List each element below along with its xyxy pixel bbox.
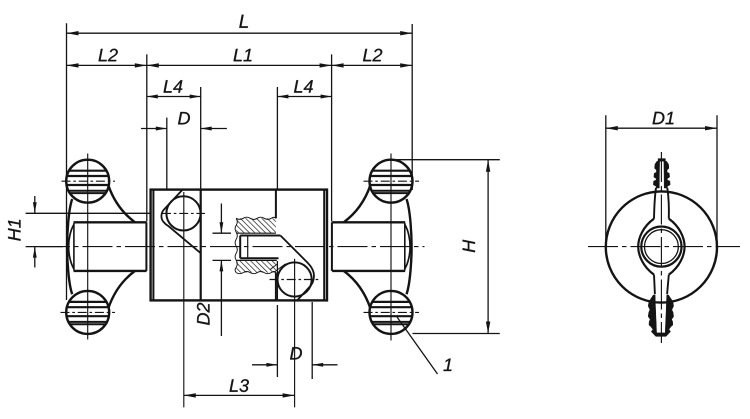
dimension D1 ext right — [716, 115, 718, 246]
side view top blade right lower edge — [667, 188, 669, 219]
left top ball horizontal centerline — [62, 180, 116, 182]
dimension D2 arrows — [220, 222, 224, 233]
label L4 right — [294, 80, 313, 92]
label H — [463, 240, 475, 252]
thread top section wavy top edge — [236, 217, 276, 219]
dimension H upper extension line — [393, 159, 500, 161]
dimension D top tail left — [141, 128, 167, 130]
right hub end face line — [404, 223, 406, 270]
dimension D2 line upper segment — [220, 204, 222, 234]
dimension D bottom tail right — [312, 364, 337, 366]
dimension L arrow left — [67, 31, 79, 35]
dimension L2 left arrows — [67, 63, 79, 67]
dimension L4 left arrows — [147, 95, 158, 99]
side view bottom blade tip wedge — [651, 330, 670, 337]
thread bore left end — [239, 236, 241, 259]
right bottom ball flats — [373, 301, 410, 303]
thread major line bottom — [236, 259, 277, 261]
block internal edge x=275.9 upper — [275, 190, 277, 219]
dimension L4 left ext line b — [200, 87, 202, 190]
side view top blade right serration bar — [664, 161, 670, 188]
side view hub outer circle — [641, 227, 681, 267]
dimension L4 right line — [277, 96, 331, 98]
side view bottom blade left edge — [653, 275, 656, 295]
right hub end cap arc — [405, 224, 410, 269]
dimension L2 right arrows — [332, 63, 344, 67]
dimension H1 line upper segment — [34, 196, 36, 213]
dimension D bottom ext left — [276, 305, 278, 377]
dimension L1 arrows — [147, 63, 159, 67]
thread major line top — [236, 232, 276, 234]
left top ball flats — [69, 170, 106, 172]
side view vertical centerline — [660, 152, 662, 343]
side view thread inner circle — [645, 230, 679, 264]
label D bottom — [290, 347, 302, 359]
dimension D bottom ext right — [311, 302, 313, 379]
side view hub almond right arc — [669, 219, 685, 275]
right hole tangent edge — [276, 261, 278, 300]
left cross-hole horizontal centerline — [162, 212, 205, 214]
left wing face edge — [145, 222, 147, 271]
right cross-hole vertical centerline / L3 extension — [294, 259, 296, 408]
dimension L line — [67, 32, 413, 34]
dimension L4 right arrows — [277, 95, 288, 99]
dimension D1 arrows — [606, 126, 618, 130]
left hub end face line — [73, 223, 75, 270]
left hub bottom line — [74, 270, 147, 272]
dimension L extension line left — [66, 23, 68, 300]
main axis centerline — [40, 246, 425, 248]
label D2 — [197, 303, 210, 325]
side view horizontal centerline — [588, 246, 740, 248]
left wing bottom ball — [66, 291, 109, 334]
dimension L extension line right — [411, 24, 413, 190]
label D1 — [653, 112, 674, 124]
dimension L2 left line — [67, 64, 147, 66]
block chamfer edge right — [323, 190, 325, 301]
dimension H line — [487, 160, 489, 334]
left wing lower-inner fillet — [108, 271, 135, 309]
block internal edge x=275.9 lower — [275, 273, 277, 301]
dimension L2-L1 extension line left-mid — [146, 54, 148, 221]
thread runout line — [247, 236, 249, 259]
left bottom ball flats — [69, 301, 106, 303]
label L3 — [230, 379, 249, 392]
dimension L arrow right — [400, 31, 412, 35]
right wing top ball — [370, 160, 413, 203]
block outline — [151, 190, 327, 301]
right hub top line — [332, 221, 405, 223]
label L1 — [234, 49, 252, 61]
label L2 right — [363, 49, 382, 62]
right wing outer silhouette arc — [407, 199, 412, 294]
left bottom ball horizontal centerline — [61, 311, 116, 313]
right cross-hole horizontal centerline — [270, 279, 321, 281]
left cross-hole circle — [166, 196, 200, 230]
right wing lower-inner fillet — [344, 271, 371, 309]
dimension L1-L2 extension line right-mid — [331, 54, 333, 221]
side view top blade left lower edge — [654, 188, 656, 219]
dimension D1 line — [606, 127, 717, 129]
side view bottom blade right serration bar — [665, 295, 673, 333]
dimension H1 line lower segment — [34, 247, 36, 268]
dimension H1 upper extension line — [26, 212, 151, 214]
block internal edge x=200.7 — [200, 190, 202, 301]
label L — [239, 15, 248, 28]
dimension H1 arrows — [33, 202, 37, 213]
left hub top line — [74, 221, 147, 223]
label D top — [178, 112, 190, 124]
dimension L3 line — [184, 394, 295, 396]
block chamfer edge left — [152, 190, 154, 301]
thread bore line top — [240, 235, 280, 237]
H1 lower extension stub on axis — [26, 246, 63, 248]
thread bottom section wavy bottom edge — [236, 272, 276, 274]
label L2 left — [99, 49, 118, 62]
side view top blade left serration bar — [653, 161, 659, 188]
right wing upper-inner fillet — [344, 185, 371, 222]
label H1 — [8, 220, 20, 241]
side view bottom blade right edge — [667, 275, 669, 295]
right wing face edge — [331, 222, 333, 271]
leader line for item 1 — [397, 317, 438, 374]
side view top blade tip cap — [658, 159, 665, 162]
thread bottom hatched section — [236, 261, 276, 273]
dimension D top tail right — [201, 128, 227, 130]
label L4 left — [164, 80, 183, 92]
thread section wavy left edge — [235, 218, 237, 272]
right breakout break line — [280, 236, 314, 301]
right hub bottom line — [332, 270, 405, 272]
dimension D2 lower stub — [213, 259, 232, 261]
right top ball flats — [373, 170, 410, 172]
right wing bottom ball — [370, 291, 413, 334]
dimension D top arrows — [156, 127, 167, 131]
right top ball horizontal centerline — [364, 180, 420, 182]
dimension L4 left line — [147, 96, 201, 98]
left cross-hole vertical centerline / L3 extension — [183, 192, 185, 407]
left wing top ball — [66, 160, 109, 203]
dimension D1 ext left — [605, 115, 607, 246]
left breakout break line — [161, 190, 201, 254]
dimension D top ext line — [166, 118, 168, 190]
right cross-hole circle — [278, 262, 312, 296]
thread bore line bottom — [240, 257, 278, 259]
dimension L3 arrows — [184, 393, 196, 397]
dimension H arrows — [486, 160, 490, 172]
dimension L4 right ext line — [276, 87, 278, 190]
right balls vertical centerline — [390, 154, 392, 341]
dimension D bottom tail left — [252, 364, 277, 366]
side view hub almond left arc — [638, 219, 654, 275]
dimension H lower extension line — [413, 333, 500, 335]
side view big circle — [606, 191, 717, 302]
label 1 — [443, 359, 451, 371]
dimension L2 right line — [332, 64, 413, 66]
dimension L1 line — [147, 64, 332, 66]
left balls vertical centerline — [87, 154, 89, 340]
left wing outer silhouette arc — [67, 199, 72, 294]
right bottom ball horizontal centerline — [364, 311, 420, 313]
side view bottom blade left serration bar — [648, 295, 656, 333]
left hub end cap arc — [69, 224, 74, 269]
dimension D bottom arrows — [266, 363, 277, 367]
dimension D2 upper stub — [213, 232, 232, 234]
left wing upper-inner fillet — [108, 185, 135, 222]
dimension D2 line lower segment — [220, 260, 222, 336]
breakout sliver hatch — [270, 264, 286, 273]
thread top hatched section — [236, 218, 276, 233]
